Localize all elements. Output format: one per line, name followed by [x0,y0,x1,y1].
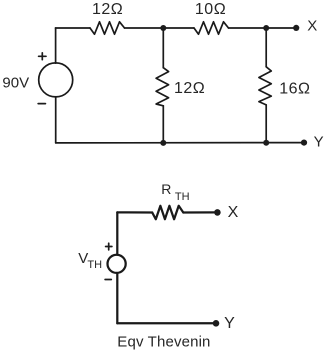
resistor 16ohm vertical zigzag [259,67,271,105]
plus sign of 90V source [39,55,46,57]
svg-text:10Ω: 10Ω [195,1,226,18]
svg-text:Eqv Thevenin: Eqv Thevenin [117,333,210,350]
wire top-left horizontal [56,27,91,29]
node bottom right junction dot [263,140,269,146]
wire thevenin top horizontal [117,211,152,213]
terminal Y dot [301,140,307,146]
svg-text:R: R [161,181,171,197]
svg-text:12Ω: 12Ω [174,80,205,97]
terminal Y dot thevenin [213,320,220,327]
svg-text:Y: Y [314,133,324,150]
resistor 10ohm zigzag [194,22,229,34]
svg-text:X: X [228,204,239,221]
wire middle branch lower [162,106,164,143]
terminal X dot [293,25,299,31]
svg-text:16Ω: 16Ω [279,80,310,97]
svg-text:TH: TH [87,259,102,271]
wire left vertical below source [55,97,57,143]
wire right branch upper [265,28,267,67]
wire thevenin top left vertical [116,212,118,254]
wire left vertical above source [55,28,57,63]
svg-text:TH: TH [175,191,190,203]
voltage source 90V circle [39,63,73,97]
svg-text:12Ω: 12Ω [92,1,123,18]
node A junction dot [160,25,166,31]
svg-text:90V: 90V [2,74,29,91]
svg-text:Y: Y [224,315,235,332]
node B junction dot [263,25,269,31]
wire below VTH source [116,273,118,323]
resistor R 12ohm top-left zigzag [90,22,125,34]
resistor 12ohm middle vertical zigzag [156,68,169,106]
wire from RTH to X terminal [183,211,217,213]
wire middle branch upper [162,28,164,68]
terminal X dot thevenin [214,209,221,216]
node bottom middle junction dot [160,140,166,146]
resistor RTH zigzag [152,206,183,219]
wire right branch lower [265,105,267,143]
wire between 12ohm and 10ohm [125,27,195,29]
svg-text:X: X [307,18,317,35]
minus sign of VTH source [105,279,111,281]
wire from 10ohm to X terminal [229,27,297,29]
wire thevenin bottom horizontal [117,322,216,324]
plus sign of VTH source [106,246,112,248]
voltage source VTH circle [108,255,126,273]
wire bottom horizontal [56,142,304,144]
minus sign of 90V source [38,103,45,105]
